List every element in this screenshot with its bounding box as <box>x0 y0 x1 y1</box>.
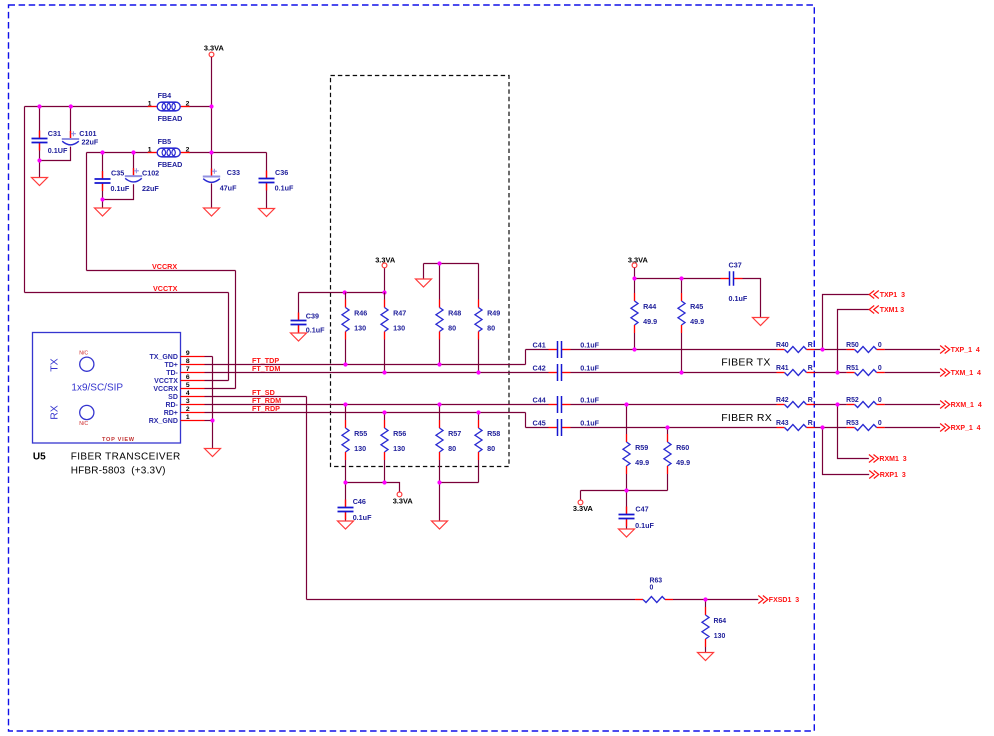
svg-text:R59: R59 <box>635 443 648 452</box>
junction <box>437 402 441 406</box>
junction <box>382 410 386 414</box>
svg-text:U5: U5 <box>33 452 46 463</box>
svg-text:0: 0 <box>650 585 654 592</box>
wire R44 to TXP line <box>634 333 636 350</box>
svg-text:C47: C47 <box>635 505 648 514</box>
wire rail to C46 <box>345 483 347 508</box>
wire branch to RXP1 <box>823 428 870 475</box>
off-page connector RXP_1 4 <box>940 424 981 433</box>
capacitor C44 (0.1uF) <box>533 395 600 413</box>
svg-text:C33: C33 <box>227 168 240 177</box>
svg-text:0.1uF: 0.1uF <box>275 184 294 193</box>
junction <box>835 370 839 374</box>
svg-text:130: 130 <box>393 444 405 453</box>
wire R58 down <box>478 460 480 483</box>
svg-text:R49: R49 <box>487 309 500 318</box>
wire RXP line to R60 <box>667 428 669 435</box>
wire VCCTX horizontal <box>25 292 229 294</box>
capacitor C37 (0.1uF) <box>721 260 748 303</box>
svg-text:R50: R50 <box>846 342 859 349</box>
wire FT_RDP jog down <box>525 413 527 428</box>
svg-text:0.1uF: 0.1uF <box>729 294 748 303</box>
svg-text:6: 6 <box>186 374 190 381</box>
wire FB5 pin2 to C36 <box>189 152 266 154</box>
resistor R45 (49.9) <box>678 293 704 333</box>
wire branch to TXM1 <box>838 310 870 373</box>
svg-text:80: 80 <box>448 324 456 333</box>
junction <box>37 104 41 108</box>
wire R59/R60 rail <box>581 490 668 492</box>
wire R49 to FT_TDM <box>478 340 480 373</box>
svg-text:0.1uF: 0.1uF <box>353 513 372 522</box>
junction <box>820 425 824 429</box>
junction <box>624 488 628 492</box>
wire FT_SD from pin4 <box>205 396 307 398</box>
svg-text:R52: R52 <box>846 397 859 404</box>
wire C46 to ground <box>345 512 347 522</box>
svg-text:47uF: 47uF <box>220 184 237 193</box>
wire pin1 stub extension <box>205 420 213 422</box>
resistor R55 (130) <box>342 420 367 460</box>
junction <box>679 276 683 280</box>
wire R51 to TXM_1 connector <box>885 372 941 374</box>
wire R41 to R51 <box>815 372 847 374</box>
svg-text:R48: R48 <box>448 309 461 318</box>
wire rail to C47 <box>626 491 628 515</box>
svg-text:FBEAD: FBEAD <box>158 160 183 169</box>
wire FT_RDM from pin3 <box>205 404 549 406</box>
svg-text:TD+: TD+ <box>164 362 177 369</box>
junction <box>131 150 135 154</box>
svg-text:0.1uF: 0.1uF <box>306 326 325 335</box>
wire C36 bottom to ground <box>266 183 268 209</box>
svg-text:80: 80 <box>448 444 456 453</box>
off-page connector TXM1 3 <box>869 306 904 315</box>
junction <box>437 261 441 265</box>
capacitor C39 (0.1uF) <box>291 311 326 334</box>
svg-text:22uF: 22uF <box>142 184 159 193</box>
wire R42 to R52 <box>815 404 847 406</box>
wire C42 to R41 <box>571 372 777 374</box>
junction <box>343 362 347 366</box>
svg-text:TXM1 3: TXM1 3 <box>880 307 905 314</box>
junction <box>632 347 636 351</box>
wire C47 to ground <box>626 519 628 530</box>
wire R46 to FT_TDP <box>345 340 347 365</box>
wire R63 to FXSD1 connector <box>673 599 758 601</box>
capacitor C31 (0.1UF) <box>32 129 68 155</box>
ferrite bead FB5 (FBEAD) <box>148 137 190 169</box>
svg-text:RD+: RD+ <box>164 410 178 417</box>
svg-text:C46: C46 <box>353 497 366 506</box>
svg-text:22uF: 22uF <box>82 137 99 146</box>
resistor R53 (0) <box>846 420 885 430</box>
svg-text:R45: R45 <box>690 302 703 311</box>
svg-text:9: 9 <box>186 350 190 357</box>
wire C36 top lead <box>266 153 268 179</box>
power 3.3VA (top) <box>204 43 225 56</box>
junction <box>100 197 104 201</box>
capacitor C42 (0.1uF) <box>533 363 600 381</box>
resistor R40 (R) <box>776 342 815 352</box>
svg-text:R56: R56 <box>393 429 406 438</box>
wire FT_RDP to R58 <box>478 413 480 421</box>
wire pin6 to VCCTX riser <box>205 380 229 382</box>
svg-text:TOP VIEW: TOP VIEW <box>102 437 135 443</box>
wire 3.3VA to rail <box>634 268 636 279</box>
junction <box>100 150 104 154</box>
svg-text:TXP_1 4: TXP_1 4 <box>951 347 980 354</box>
wire C102 bottom tie <box>103 184 134 199</box>
wire C39 rail <box>299 292 385 294</box>
wire rail to 3.3VA <box>580 491 582 501</box>
junction <box>624 402 628 406</box>
ground (C46) <box>338 521 354 529</box>
svg-text:VCCRX: VCCRX <box>153 386 178 393</box>
wire C44 to R42 <box>571 404 777 406</box>
resistor R46 (130) <box>342 300 367 340</box>
ground (C37) <box>753 318 769 326</box>
resistor R44 (49.9) <box>631 293 657 333</box>
wire R47 to FT_TDM <box>384 340 386 373</box>
svg-text:C45: C45 <box>533 418 546 427</box>
svg-text:0.1UF: 0.1UF <box>48 146 68 155</box>
wire VCCRX vertical <box>86 153 88 271</box>
resistor R64 (130) <box>702 607 726 647</box>
svg-text:49.9: 49.9 <box>635 458 649 467</box>
svg-text:130: 130 <box>714 633 726 640</box>
junction <box>437 480 441 484</box>
svg-text:R57: R57 <box>448 429 461 438</box>
svg-text:5: 5 <box>186 382 190 389</box>
wire FT_TDP jog up <box>525 350 527 365</box>
svg-text:80: 80 <box>487 324 495 333</box>
pin 1 RX_GND <box>149 414 205 425</box>
ground (C47) <box>619 529 635 537</box>
junction <box>665 425 669 429</box>
resistor R60 (49.9) <box>664 434 690 474</box>
resistor R42 (R) <box>776 397 815 407</box>
svg-text:C41: C41 <box>533 340 546 349</box>
pin 8 TD+ <box>164 358 204 369</box>
wire FT_TDP from pin8 <box>205 364 526 366</box>
svg-text:TXP1 3: TXP1 3 <box>880 292 905 299</box>
wire rail to R48 <box>439 264 441 300</box>
svg-text:R: R <box>808 342 813 349</box>
resistor R52 (0) <box>846 397 885 407</box>
svg-text:R46: R46 <box>354 309 367 318</box>
svg-text:2: 2 <box>186 100 190 107</box>
wire C101 bottom tie <box>40 147 71 161</box>
svg-text:0.1uF: 0.1uF <box>580 340 599 349</box>
svg-text:R: R <box>808 397 813 404</box>
wire R48 to FT_TDP <box>439 340 441 365</box>
wire R57/R58 rail <box>440 482 479 484</box>
svg-text:1x9/SC/SIP: 1x9/SC/SIP <box>71 382 123 393</box>
capacitor C36 (0.1uF) <box>259 168 294 193</box>
svg-text:R63: R63 <box>650 577 663 584</box>
svg-text:0.1uF: 0.1uF <box>635 521 654 530</box>
junction <box>632 276 636 280</box>
svg-text:TX_GND: TX_GND <box>149 354 177 361</box>
wire rail to R46 <box>345 293 347 300</box>
resistor R56 (130) <box>381 420 406 460</box>
svg-text:130: 130 <box>393 324 405 333</box>
pin 2 RD+ <box>164 406 205 417</box>
resistor R50 (0) <box>846 342 885 352</box>
svg-text:R43: R43 <box>776 420 789 427</box>
wire FT_RDP from pin2 <box>205 412 526 414</box>
U5 reference and part name <box>33 452 181 477</box>
wire branch to RXM1 <box>838 405 869 459</box>
wire VCCTX riser to pin6 <box>228 293 230 381</box>
wire R57 down <box>439 460 441 483</box>
junction <box>382 480 386 484</box>
pin 3 RD- <box>165 398 204 409</box>
svg-text:N/C: N/C <box>79 421 88 427</box>
svg-text:1: 1 <box>148 146 152 153</box>
off-page connector TXP_1 4 <box>940 346 980 355</box>
pin 7 TD- <box>166 366 204 377</box>
resistor R49 (80) <box>475 300 500 340</box>
svg-text:VCCTX: VCCTX <box>154 378 178 385</box>
wire FT_RDM to R55 <box>345 405 347 421</box>
wire ground rail R48/R49 <box>424 263 479 265</box>
svg-text:7: 7 <box>186 366 190 373</box>
svg-text:0.1uF: 0.1uF <box>580 418 599 427</box>
wire R56 down <box>384 460 386 483</box>
wire RXM line to R59 <box>626 405 628 435</box>
svg-text:TXM_1 4: TXM_1 4 <box>951 370 981 377</box>
svg-text:FB4: FB4 <box>158 91 172 100</box>
svg-text:1: 1 <box>148 100 152 107</box>
wire R64 to ground <box>705 647 707 653</box>
svg-text:FBEAD: FBEAD <box>158 114 183 123</box>
ground (C35/C102) <box>95 208 111 216</box>
wire rail to R49 <box>478 264 480 300</box>
ground (C33) <box>204 208 220 216</box>
svg-text:0.1uF: 0.1uF <box>111 184 130 193</box>
wire rail to R45 <box>681 279 683 294</box>
svg-text:RXM_1 4: RXM_1 4 <box>951 402 982 409</box>
svg-text:130: 130 <box>354 444 366 453</box>
svg-text:RX_GND: RX_GND <box>149 418 178 425</box>
svg-text:0.1uF: 0.1uF <box>580 395 599 404</box>
off-page connector FXSD1 3 <box>758 596 799 605</box>
svg-text:FT_RDP: FT_RDP <box>252 404 280 413</box>
ferrite bead FB4 (FBEAD) <box>148 91 190 123</box>
resistor R57 (80) <box>436 420 461 460</box>
wire C31 top lead <box>39 107 41 139</box>
ground (C39) <box>291 333 307 341</box>
svg-text:FXSD1 3: FXSD1 3 <box>769 597 799 604</box>
off-page connector RXP1 3 <box>869 471 906 480</box>
off-page connector RXM1 3 <box>869 455 907 464</box>
junction <box>209 150 213 154</box>
svg-text:VCCTX: VCCTX <box>153 284 178 293</box>
wire FT_RDP to R56 <box>384 413 386 421</box>
resistor R59 (49.9) <box>623 434 649 474</box>
junction <box>382 370 386 374</box>
power 3.3VA (R55/R56 rail) <box>393 492 414 506</box>
junction <box>820 347 824 351</box>
capacitor C46 (0.1uF) <box>338 497 373 522</box>
power 3.3VA (R59/R60 rail) <box>573 500 594 513</box>
svg-text:0: 0 <box>878 342 882 349</box>
junction <box>343 480 347 484</box>
wire to R64 <box>705 600 707 608</box>
svg-text:80: 80 <box>487 444 495 453</box>
svg-text:8: 8 <box>186 358 190 365</box>
wire pin5 to VCCRX riser <box>205 388 236 390</box>
svg-text:R47: R47 <box>393 309 406 318</box>
svg-text:C42: C42 <box>533 363 546 372</box>
wire to C45 <box>526 427 549 429</box>
wire 3.3VA to rail <box>384 268 386 293</box>
wire R50 to TXP_1 connector <box>885 349 941 351</box>
wire to ground under U5 <box>212 421 214 449</box>
svg-text:HFBR-5803 (+3.3V): HFBR-5803 (+3.3V) <box>71 465 166 476</box>
svg-text:4: 4 <box>186 390 190 397</box>
resistor R48 (80) <box>436 300 461 340</box>
wire R59 down <box>626 474 628 491</box>
wire R52 to RXM_1 connector <box>885 404 941 406</box>
wire TX_GND to RX_GND <box>212 357 214 421</box>
capacitor C45 (0.1uF) <box>533 418 600 436</box>
wire C41 to R40 <box>571 349 777 351</box>
svg-text:R: R <box>808 420 813 427</box>
off-page connector TXM_1 4 <box>940 369 981 378</box>
wire C45 to R43 <box>571 427 777 429</box>
wire R43 to R53 <box>815 427 847 429</box>
svg-text:R41: R41 <box>776 365 789 372</box>
svg-text:FIBER TX: FIBER TX <box>721 357 770 369</box>
resistor R63 (0) <box>635 577 673 602</box>
svg-text:TX: TX <box>49 358 61 371</box>
wire C35 bottom to ground <box>102 183 104 208</box>
pin 4 SD <box>168 390 204 401</box>
resistor R51 (0) <box>846 365 885 375</box>
svg-text:N/C: N/C <box>79 351 88 357</box>
resistor R41 (R) <box>776 365 815 375</box>
svg-text:FIBER TRANSCEIVER: FIBER TRANSCEIVER <box>71 452 181 463</box>
svg-text:TD-: TD- <box>166 370 178 377</box>
svg-text:3.3VA: 3.3VA <box>628 255 649 264</box>
off-page connector RXM_1 4 <box>940 401 982 410</box>
svg-text:RXP_1 4: RXP_1 4 <box>951 425 981 432</box>
wire to C41 <box>526 349 549 351</box>
svg-text:C36: C36 <box>275 168 288 177</box>
IC U5 FIBER TRANSCEIVER HFBR-5803 body <box>33 333 181 444</box>
wire rail to ground symbol <box>423 264 425 280</box>
svg-text:0: 0 <box>878 365 882 372</box>
svg-text:0: 0 <box>878 420 882 427</box>
svg-text:R: R <box>808 365 813 372</box>
junction <box>210 418 214 422</box>
resistor R43 (R) <box>776 420 815 430</box>
wire FT_SD vertical <box>306 397 308 600</box>
svg-text:RXM1 3: RXM1 3 <box>879 456 906 463</box>
junction <box>437 362 441 366</box>
off-page connector TXP1 3 <box>869 291 905 300</box>
power 3.3VA (R46/R47 rail) <box>375 256 396 268</box>
wire C39 top lead <box>298 293 300 321</box>
svg-text:FIBER RX: FIBER RX <box>721 412 772 424</box>
wire R45 to TXM line <box>681 333 683 373</box>
wire branch to TXP1 <box>823 295 870 350</box>
svg-text:R42: R42 <box>776 397 789 404</box>
svg-text:R55: R55 <box>354 429 367 438</box>
svg-text:0.1uF: 0.1uF <box>580 363 599 372</box>
svg-text:FB5: FB5 <box>158 137 172 146</box>
junction <box>476 410 480 414</box>
pin 6 VCCTX <box>154 374 204 385</box>
svg-text:3: 3 <box>186 398 190 405</box>
wire VCCRX riser to pin5 <box>235 271 237 389</box>
pin 5 VCCRX <box>153 382 204 393</box>
svg-text:C44: C44 <box>533 395 546 404</box>
svg-text:R58: R58 <box>487 429 500 438</box>
wire 3.3VA column to C33 <box>211 57 213 177</box>
svg-text:C39: C39 <box>306 311 319 320</box>
svg-text:R60: R60 <box>676 443 689 452</box>
svg-text:2: 2 <box>186 406 190 413</box>
svg-text:R51: R51 <box>846 365 859 372</box>
power 3.3VA (R44/R45 rail) <box>628 255 649 267</box>
wire R40 to R50 <box>815 349 847 351</box>
svg-text:RX: RX <box>49 405 61 420</box>
wire FT_TDM from pin7 <box>205 372 549 374</box>
wire R55 down <box>345 460 347 483</box>
junction <box>37 158 41 162</box>
svg-text:VCCRX: VCCRX <box>152 262 177 271</box>
svg-text:3.3VA: 3.3VA <box>393 497 414 506</box>
ground (C36) <box>259 209 275 217</box>
svg-text:1: 1 <box>186 414 190 421</box>
wire rail to R47 <box>384 293 386 300</box>
junction <box>343 290 347 294</box>
pin 9 TX_GND <box>149 350 204 361</box>
wire VCCRX horizontal <box>87 270 236 272</box>
wire C35 top lead <box>102 153 104 180</box>
svg-text:R53: R53 <box>846 420 859 427</box>
wire C39 to ground <box>298 325 300 334</box>
svg-text:C31: C31 <box>48 129 61 138</box>
wire C102 top lead <box>133 153 135 177</box>
wire rail to FB4 pin1 <box>25 106 149 108</box>
wire R55/R56 rail to 3.3VA <box>346 483 400 493</box>
svg-text:R64: R64 <box>714 618 727 625</box>
wire C101 top lead <box>70 107 72 140</box>
svg-text:C37: C37 <box>729 260 742 269</box>
junction <box>69 104 73 108</box>
junction <box>382 290 386 294</box>
svg-text:R40: R40 <box>776 342 789 349</box>
junction <box>679 370 683 374</box>
junction <box>209 104 213 108</box>
svg-text:0: 0 <box>878 397 882 404</box>
capacitor C33 (47uF, polarized) <box>203 168 240 193</box>
junction <box>476 370 480 374</box>
wire rail to R44 <box>634 279 636 294</box>
svg-text:3.3VA: 3.3VA <box>204 43 225 52</box>
resistor R58 (80) <box>475 420 500 460</box>
svg-text:2: 2 <box>186 146 190 153</box>
svg-text:C35: C35 <box>111 168 124 177</box>
wire C33 bottom to ground <box>211 183 213 208</box>
ground (U5 pins 1/9) <box>205 449 221 457</box>
junction <box>703 597 707 601</box>
